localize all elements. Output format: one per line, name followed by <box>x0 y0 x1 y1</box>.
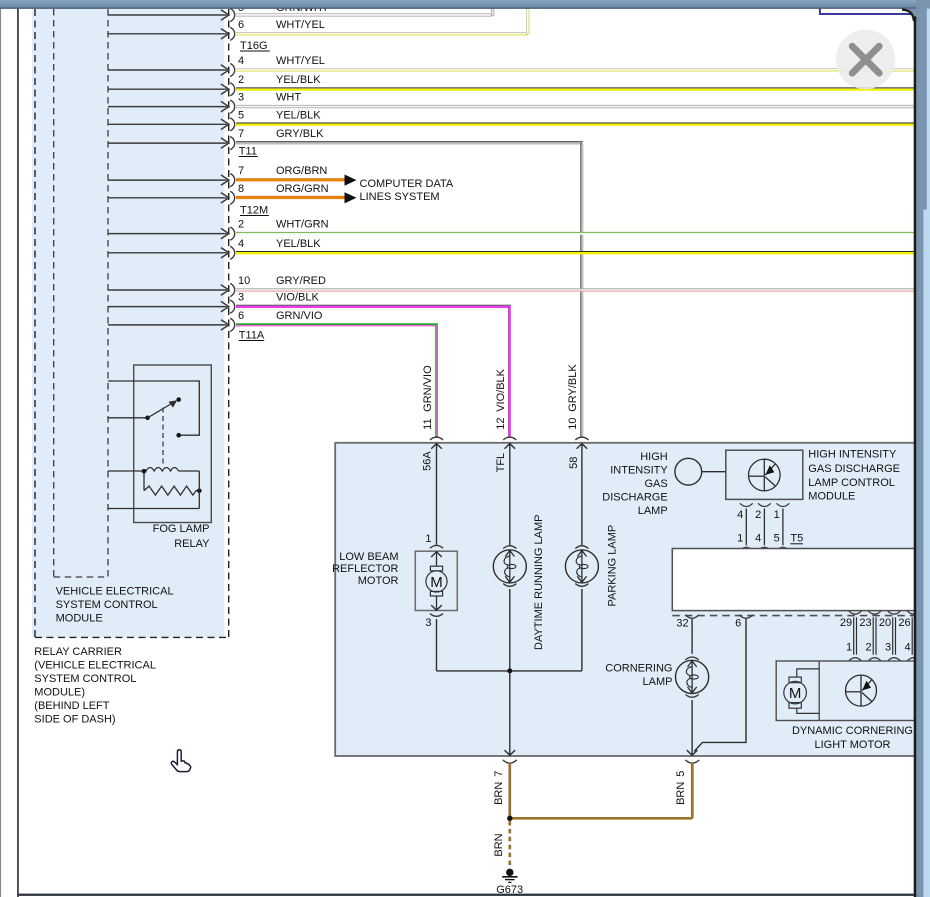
svg-text:GAS: GAS <box>644 478 667 490</box>
pin 6 connector <box>739 615 752 618</box>
node pin 12 VIO/BLK entry <box>503 437 516 440</box>
svg-text:HIGH INTENSITY: HIGH INTENSITY <box>808 449 897 461</box>
pin stub T5 at x=782.9 <box>777 503 790 506</box>
arrow to computer data lines <box>345 175 357 186</box>
wire TFL vertical <box>509 444 511 546</box>
svg-text:YEL/BLK: YEL/BLK <box>276 74 321 86</box>
svg-text:DAYTIME RUNNING LAMP: DAYTIME RUNNING LAMP <box>533 515 545 650</box>
wire pin 6 branch <box>694 619 746 751</box>
cursor hand icon <box>171 750 190 772</box>
pin 32 connector <box>686 615 699 618</box>
svg-text:T11A: T11A <box>239 329 265 341</box>
dynamic cornering light motor box <box>776 661 914 721</box>
wire pin 6 WHT/YEL <box>108 33 227 35</box>
svg-text:10: 10 <box>567 418 579 430</box>
svg-text:WHT/GRN: WHT/GRN <box>276 219 329 231</box>
svg-text:BRN: BRN <box>675 782 687 805</box>
wire HID lamp to module <box>702 471 726 473</box>
pin 7 exit connector <box>503 760 517 763</box>
wire GRN/WHT vertical riser <box>491 9 494 16</box>
svg-text:ORG/BRN: ORG/BRN <box>276 165 327 177</box>
svg-text:LAMP: LAMP <box>638 505 668 517</box>
svg-text:G673: G673 <box>496 884 523 896</box>
svg-text:1: 1 <box>846 641 852 653</box>
svg-text:5: 5 <box>238 109 244 121</box>
left page border line <box>17 9 19 897</box>
svg-text:4: 4 <box>737 509 743 521</box>
bottom diagram separator line <box>19 894 914 896</box>
relay coil L1 <box>108 470 146 472</box>
svg-text:GRY/RED: GRY/RED <box>276 275 326 287</box>
svg-text:COMPUTER DATA: COMPUTER DATA <box>360 178 454 190</box>
pin stub T5 at x=746.3 <box>740 503 753 506</box>
svg-text:SYSTEM CONTROL: SYSTEM CONTROL <box>34 673 136 685</box>
svg-text:DYNAMIC CORNERING: DYNAMIC CORNERING <box>792 725 913 737</box>
scrollbar track <box>927 9 930 897</box>
wire relay bottom feed <box>108 508 199 510</box>
pin 29/1 connector bars <box>849 611 862 614</box>
svg-text:(VEHICLE ELECTRICAL: (VEHICLE ELECTRICAL <box>34 659 156 671</box>
wire BRN right <box>691 763 694 819</box>
svg-text:26: 26 <box>898 617 910 629</box>
HID lamp control module U1 box <box>726 450 803 499</box>
wire pin 32 to cornering lamp <box>691 619 693 654</box>
svg-text:MODULE: MODULE <box>56 613 103 625</box>
node ground bus junction <box>507 668 512 673</box>
wire 56A vertical <box>436 444 438 546</box>
svg-text:LIGHT MOTOR: LIGHT MOTOR <box>815 739 891 751</box>
wire relay common feed <box>108 417 146 419</box>
svg-text:4: 4 <box>755 533 761 545</box>
right frame band <box>916 0 930 897</box>
wire pin 7 GRY/BLK <box>108 142 227 144</box>
lamp E3 high intensity gas discharge lamp <box>675 458 702 485</box>
pin 23/2 connector bars <box>868 611 881 614</box>
wire pin 2 WHT/GRN <box>108 233 227 235</box>
svg-text:6: 6 <box>735 618 741 630</box>
wire WHT/YEL vertical riser <box>527 9 530 34</box>
wire pin 4 YEL/BLK <box>108 252 227 254</box>
svg-text:MODULE: MODULE <box>808 491 855 503</box>
motor M2 dynamic cornering light motor <box>789 677 801 683</box>
wire GRY/BLK vertical to headlamp box <box>580 143 582 438</box>
wire relay NO contact feed <box>108 381 199 435</box>
headlamp internal connector body <box>672 549 915 611</box>
svg-text:WHT/YEL: WHT/YEL <box>276 19 325 31</box>
igniter symbol in dynamic motor <box>846 675 877 706</box>
svg-text:T12M: T12M <box>240 204 268 216</box>
partially hidden toolbar element (navy box) <box>820 0 917 14</box>
motor M1 low beam reflector motor <box>415 551 457 610</box>
svg-text:RELAY: RELAY <box>174 538 210 550</box>
wire relay right vertical <box>198 471 200 509</box>
resistor R1 (relay suppression) <box>144 486 199 495</box>
relay carrier dashed box <box>34 9 36 637</box>
svg-text:8: 8 <box>238 183 244 195</box>
svg-text:RELAY CARRIER: RELAY CARRIER <box>34 646 122 658</box>
node resistor right junction <box>197 489 202 494</box>
svg-text:4: 4 <box>238 238 244 250</box>
wire motor return <box>436 619 438 671</box>
wire pin 3 VIO/BLK <box>108 306 227 308</box>
svg-text:GRN/VIO: GRN/VIO <box>276 310 323 322</box>
wire pin 5 YEL/BLK <box>108 123 227 125</box>
svg-text:LINES SYSTEM: LINES SYSTEM <box>360 191 440 203</box>
svg-text:12: 12 <box>495 418 507 430</box>
svg-text:29: 29 <box>840 617 852 629</box>
svg-text:3: 3 <box>238 292 244 304</box>
svg-text:2: 2 <box>755 509 761 521</box>
svg-text:YEL/BLK: YEL/BLK <box>276 238 321 250</box>
wire BRN bus <box>510 817 693 820</box>
igniter symbol in module <box>749 459 781 491</box>
svg-text:7: 7 <box>493 771 505 777</box>
svg-text:32: 32 <box>676 617 688 629</box>
svg-text:1: 1 <box>425 533 431 545</box>
svg-text:GRN/VIO: GRN/VIO <box>422 365 434 412</box>
svg-text:GRY/BLK: GRY/BLK <box>567 364 579 412</box>
node pin 11 GRN/VIO entry <box>430 437 443 440</box>
wire VIO/BLK vertical to headlamp box <box>508 307 510 438</box>
svg-text:BRN: BRN <box>493 782 505 805</box>
wire pin 10 GRY/RED <box>108 289 227 291</box>
node relay upper contact <box>176 397 181 402</box>
svg-text:2: 2 <box>238 74 244 86</box>
svg-text:DISCHARGE: DISCHARGE <box>602 492 667 504</box>
wire coil-resistor left leg <box>143 471 145 490</box>
relay switch arm K1 <box>148 403 173 418</box>
svg-text:M: M <box>430 574 443 591</box>
wire pin 3 WHT <box>108 106 227 108</box>
node relay NO contact <box>176 433 181 438</box>
fog lamp relay box <box>134 365 212 523</box>
svg-text:HIGH: HIGH <box>640 451 668 463</box>
wire pin 2 YEL/BLK <box>108 88 227 90</box>
svg-text:4: 4 <box>238 55 244 67</box>
svg-text:CORNERING: CORNERING <box>605 663 672 675</box>
svg-text:7: 7 <box>238 128 244 140</box>
svg-text:4: 4 <box>904 641 910 653</box>
svg-text:10: 10 <box>238 275 250 287</box>
svg-text:5: 5 <box>675 771 687 777</box>
close button <box>836 30 896 90</box>
svg-text:T11: T11 <box>239 145 257 157</box>
wire pin 8 ORG/GRN <box>108 197 227 199</box>
wire BRN left <box>508 763 511 819</box>
node BRN junction <box>507 816 512 821</box>
svg-text:T5: T5 <box>790 533 803 545</box>
ground G673 <box>506 869 513 876</box>
wire 58 vertical <box>581 444 583 546</box>
svg-text:MODULE): MODULE) <box>34 686 85 698</box>
svg-text:VEHICLE ELECTRICAL: VEHICLE ELECTRICAL <box>56 586 174 598</box>
svg-text:SYSTEM CONTROL: SYSTEM CONTROL <box>56 599 158 611</box>
svg-text:2: 2 <box>238 219 244 231</box>
svg-text:INTENSITY: INTENSITY <box>610 465 668 477</box>
svg-text:5: 5 <box>774 533 780 545</box>
svg-text:T16G: T16G <box>240 40 268 52</box>
pin 20/3 connector bars <box>888 611 901 614</box>
svg-text:(BEHIND LEFT: (BEHIND LEFT <box>34 700 109 712</box>
relay actuator dashed link <box>162 408 164 467</box>
svg-text:6: 6 <box>238 19 244 31</box>
svg-text:11: 11 <box>422 418 434 429</box>
relay carrier module shaded area <box>32 9 224 638</box>
wire pin 6 GRN/VIO <box>108 324 227 326</box>
svg-text:LOW BEAM: LOW BEAM <box>339 551 398 563</box>
wire lamp return bus <box>437 670 582 672</box>
svg-text:WHT/YEL: WHT/YEL <box>276 55 325 67</box>
svg-text:1: 1 <box>737 533 743 545</box>
top frame bar <box>0 0 930 9</box>
svg-text:LAMP: LAMP <box>643 676 673 688</box>
wire DRL to ground junction <box>509 589 511 755</box>
svg-text:WHT: WHT <box>276 92 301 104</box>
right content border line <box>914 16 917 897</box>
svg-text:BRN: BRN <box>493 833 505 856</box>
svg-text:GRY/BLK: GRY/BLK <box>276 128 324 140</box>
pin 5 exit connector <box>685 760 699 763</box>
svg-text:23: 23 <box>859 617 871 629</box>
svg-text:20: 20 <box>879 617 891 629</box>
svg-text:VIO/BLK: VIO/BLK <box>276 292 319 304</box>
svg-text:1: 1 <box>774 509 780 521</box>
dashed module boundary line <box>672 615 914 617</box>
svg-text:2: 2 <box>865 641 871 653</box>
svg-text:3: 3 <box>238 92 244 104</box>
svg-text:REFLECTOR: REFLECTOR <box>332 563 398 575</box>
svg-text:3: 3 <box>885 641 891 653</box>
svg-text:3: 3 <box>425 617 431 629</box>
svg-text:6: 6 <box>238 310 244 322</box>
headlamp assembly box <box>335 443 915 756</box>
lamp E1 daytime running lamp <box>493 550 526 583</box>
arrow to computer data lines <box>345 192 357 203</box>
lamp E4 cornering lamp <box>676 660 709 693</box>
vehicle electrical system control module dashed box <box>53 9 55 577</box>
wire pin 4 WHT/YEL <box>108 69 227 71</box>
svg-text:PARKING LAMP: PARKING LAMP <box>607 525 619 607</box>
svg-text:MOTOR: MOTOR <box>358 575 399 587</box>
svg-text:SIDE OF DASH): SIDE OF DASH) <box>34 713 115 725</box>
wire GRN/VIO vertical to headlamp box <box>435 325 437 438</box>
wire BRN dashed to ground <box>508 821 511 869</box>
lamp E2 parking lamp <box>565 550 598 583</box>
pin stub T5 at x=764.4 <box>758 503 771 506</box>
svg-text:TFL: TFL <box>495 453 507 473</box>
svg-text:ORG/GRN: ORG/GRN <box>276 183 329 195</box>
node coil left junction <box>142 469 147 474</box>
svg-text:FOG LAMP: FOG LAMP <box>153 523 210 535</box>
node relay common contact <box>145 416 150 421</box>
pin 26/4 connector bars <box>907 611 920 614</box>
svg-text:M: M <box>789 685 802 702</box>
node pin 10 GRY/BLK entry <box>575 437 588 440</box>
svg-text:7: 7 <box>238 165 244 177</box>
svg-text:VIO/BLK: VIO/BLK <box>495 368 507 411</box>
svg-text:LAMP CONTROL: LAMP CONTROL <box>808 477 895 489</box>
svg-text:YEL/BLK: YEL/BLK <box>276 109 321 121</box>
svg-text:GAS DISCHARGE: GAS DISCHARGE <box>808 463 900 475</box>
svg-text:58: 58 <box>568 457 580 469</box>
svg-text:56A: 56A <box>422 451 434 471</box>
wire pin 5 GRN/WHT <box>108 14 227 16</box>
wire pin 7 ORG/BRN <box>108 179 227 181</box>
